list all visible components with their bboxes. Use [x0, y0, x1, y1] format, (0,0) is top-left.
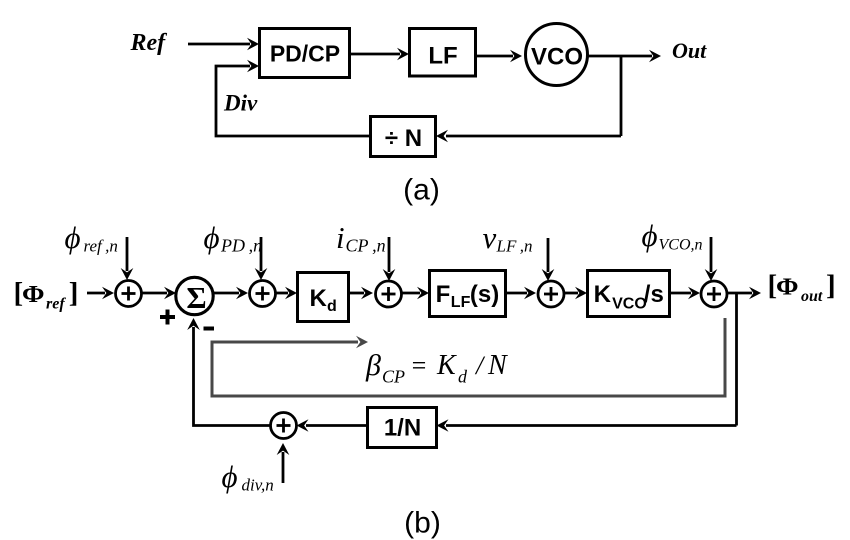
svg-text:Out: Out: [672, 38, 707, 63]
svg-text:ϕ: ϕ: [65, 220, 81, 255]
svg-text:(a): (a): [403, 174, 440, 207]
block LF: [410, 29, 476, 77]
svg-text:PD ,n: PD ,n: [220, 236, 262, 256]
svg-text:Ref: Ref: [130, 30, 168, 56]
svg-text:VCO: VCO: [612, 295, 647, 312]
wire VCO to Out: [588, 55, 653, 58]
svg-text:β: β: [365, 349, 381, 382]
wire KVCO to S5: [670, 292, 692, 295]
svg-text:÷ N: ÷ N: [385, 125, 422, 152]
svg-text:v: v: [483, 220, 497, 255]
block VCO: [526, 24, 588, 86]
svg-text:]: ]: [826, 270, 836, 302]
wire to divider: [446, 135, 621, 138]
wire noise phi_PD,n: [260, 237, 263, 271]
wire Sigma to S2: [213, 292, 240, 295]
summer S4: [538, 281, 564, 307]
svg-text:=: =: [410, 351, 428, 380]
svg-text:div,n: div,n: [242, 476, 274, 495]
summer S1: [116, 281, 142, 307]
svg-text:ϕ: ϕ: [222, 459, 238, 494]
wire PD/CP to LF: [350, 53, 401, 56]
wire S1 to Sigma: [142, 292, 168, 295]
svg-text:K: K: [310, 285, 328, 312]
summer S3: [376, 281, 402, 307]
block FLF(s): [430, 271, 506, 317]
summer S5: [701, 281, 727, 307]
svg-text:i: i: [336, 220, 345, 255]
wire loop-gain indicator (gray): [212, 318, 725, 396]
svg-text:ϕ: ϕ: [204, 220, 220, 255]
wire noise i_CP,n: [388, 237, 391, 272]
wire divider to PD/CP input: [216, 66, 371, 136]
wire Ref input: [188, 43, 250, 46]
svg-text:Φ: Φ: [22, 282, 45, 308]
label plus: [160, 315, 175, 319]
svg-text:LF ,n: LF ,n: [496, 237, 533, 256]
wire FLF to S4: [506, 292, 528, 295]
block 1/N: [368, 408, 437, 448]
wire S2 to Kd: [276, 292, 289, 295]
wire output branch down: [735, 293, 738, 426]
svg-text:1/N: 1/N: [384, 414, 421, 441]
svg-text:/: /: [474, 351, 486, 380]
svg-text:LF: LF: [451, 294, 471, 311]
svg-text:out: out: [801, 288, 823, 305]
summer Sigma: [176, 277, 213, 314]
block KVCO/s: [588, 271, 670, 317]
svg-text:Σ: Σ: [186, 280, 206, 315]
summer S6: [271, 413, 297, 439]
wire S3 to FLF: [402, 292, 421, 295]
block PD/CP: [260, 29, 350, 78]
wire noise v_LF,n: [547, 238, 550, 272]
svg-text:ϕ: ϕ: [642, 218, 658, 253]
wire LF to VCO: [476, 55, 514, 58]
wire to 1/N: [446, 424, 737, 427]
wire Kd to S3: [349, 292, 365, 295]
wire S6 to Sigma: [194, 327, 271, 426]
wire output branch down: [620, 56, 623, 136]
svg-text:/s: /s: [644, 281, 664, 308]
svg-text:F: F: [436, 281, 451, 308]
wire input: [87, 292, 105, 295]
svg-text:ref: ref: [46, 296, 66, 313]
svg-text:Φ: Φ: [776, 275, 799, 301]
svg-text:]: ]: [69, 277, 79, 309]
block divider N: [371, 117, 436, 157]
svg-text:(s): (s): [470, 281, 499, 308]
wire 1/N to S6: [306, 424, 368, 427]
summer S2: [250, 281, 276, 307]
svg-text:CP: CP: [382, 367, 405, 387]
svg-text:PD/CP: PD/CP: [270, 41, 340, 67]
label minus: [204, 327, 215, 331]
wire noise phi_div,n: [282, 452, 285, 483]
svg-text:ref ,n: ref ,n: [84, 237, 118, 256]
wire noise phi_ref,n: [126, 237, 129, 271]
wire noise phi_VCO,n: [710, 237, 713, 272]
svg-text:LF: LF: [428, 43, 457, 70]
svg-text:K: K: [436, 350, 457, 381]
svg-text:Div: Div: [223, 91, 258, 116]
svg-text:d: d: [327, 298, 337, 315]
svg-text:VCO,n: VCO,n: [659, 237, 703, 254]
svg-text:K: K: [594, 281, 612, 308]
svg-text:d: d: [458, 367, 468, 387]
svg-text:(b): (b): [404, 507, 441, 540]
svg-text:N: N: [487, 350, 508, 381]
svg-text:VCO: VCO: [531, 44, 583, 71]
block Kd: [298, 273, 349, 322]
wire S5 to output: [727, 292, 752, 295]
svg-text:CP ,n: CP ,n: [346, 236, 386, 256]
wire S4 to KVCO: [564, 292, 578, 295]
